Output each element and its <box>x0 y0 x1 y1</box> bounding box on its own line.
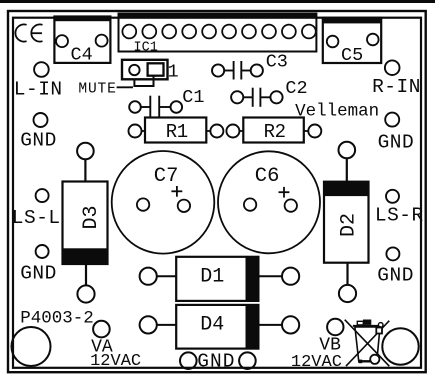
svg-text:C7: C7 <box>154 165 179 188</box>
svg-text:D1: D1 <box>200 266 224 289</box>
diode D2 <box>324 182 369 263</box>
svg-text:C5: C5 <box>341 45 363 66</box>
svg-text:LS-L: LS-L <box>12 207 61 229</box>
capacitor C4 <box>54 17 110 66</box>
node LS-L <box>36 189 49 202</box>
resistor R1 <box>129 118 224 143</box>
node GND right upper <box>385 113 399 127</box>
svg-text:12VAC: 12VAC <box>291 353 342 372</box>
op-amp IC1 <box>119 14 317 56</box>
svg-text:C4: C4 <box>71 45 93 66</box>
svg-text:D3: D3 <box>80 205 103 229</box>
svg-text:R-IN: R-IN <box>372 76 421 98</box>
node L-IN <box>34 62 49 77</box>
node R-IN <box>385 60 400 75</box>
wire mute dash <box>117 86 133 88</box>
svg-text:GND: GND <box>20 263 57 285</box>
svg-text:LS-R: LS-R <box>375 205 424 227</box>
svg-text:C2: C2 <box>285 78 307 99</box>
svg-text:GND: GND <box>20 130 57 152</box>
svg-text:IC1: IC1 <box>134 41 158 56</box>
svg-text:D2: D2 <box>338 213 361 237</box>
wire D3 top <box>84 159 86 181</box>
diode D4 <box>140 305 300 349</box>
capacitor C1 <box>129 87 204 117</box>
node LS-R <box>386 190 399 203</box>
node GND right lower <box>386 247 399 260</box>
svg-text:MUTE: MUTE <box>78 81 116 97</box>
svg-text:GND: GND <box>378 132 415 154</box>
svg-text:Velleman: Velleman <box>295 101 379 121</box>
capacitor C6 <box>218 151 320 253</box>
diode D1 <box>140 257 300 301</box>
mounting hole left <box>12 327 51 366</box>
WEEE crossed-out bin icon <box>345 320 390 367</box>
node pad below D2 <box>339 285 356 302</box>
node GND left lower <box>36 245 49 258</box>
wire D2 bottom <box>346 263 348 285</box>
CE mark <box>15 24 42 41</box>
node GND bottom pad right <box>239 352 256 369</box>
capacitor C5 <box>323 18 381 66</box>
resistor R2 <box>226 118 321 143</box>
mounting hole right <box>382 328 418 364</box>
svg-text:GND: GND <box>197 351 235 373</box>
capacitor C7 <box>112 151 215 254</box>
svg-text:R1: R1 <box>166 121 188 143</box>
node pad above D2 <box>339 142 356 159</box>
node pad above D3 <box>77 143 94 160</box>
svg-text:1: 1 <box>168 62 179 83</box>
svg-text:GND: GND <box>377 265 414 287</box>
svg-text:C3: C3 <box>266 51 288 72</box>
svg-text:C1: C1 <box>182 87 204 108</box>
wire D3 bottom <box>85 264 87 285</box>
wire D2 top <box>346 158 348 181</box>
scan edge bar <box>0 0 435 3</box>
capacitor C3 <box>212 51 288 79</box>
node GND bottom pad left <box>180 352 197 369</box>
node VB <box>327 319 343 335</box>
jumper MUTE <box>122 60 179 86</box>
svg-text:L-IN: L-IN <box>14 78 63 100</box>
svg-text:12VAC: 12VAC <box>90 352 141 371</box>
capacitor C2 <box>231 78 308 107</box>
svg-text:P4003-2: P4003-2 <box>20 308 94 328</box>
node pad below D3 <box>77 285 94 302</box>
diode D3 <box>63 182 108 265</box>
node GND left upper <box>34 113 48 127</box>
svg-text:C6: C6 <box>255 165 280 188</box>
svg-text:R2: R2 <box>264 121 286 143</box>
node VA <box>93 321 110 338</box>
svg-text:D4: D4 <box>200 314 224 337</box>
